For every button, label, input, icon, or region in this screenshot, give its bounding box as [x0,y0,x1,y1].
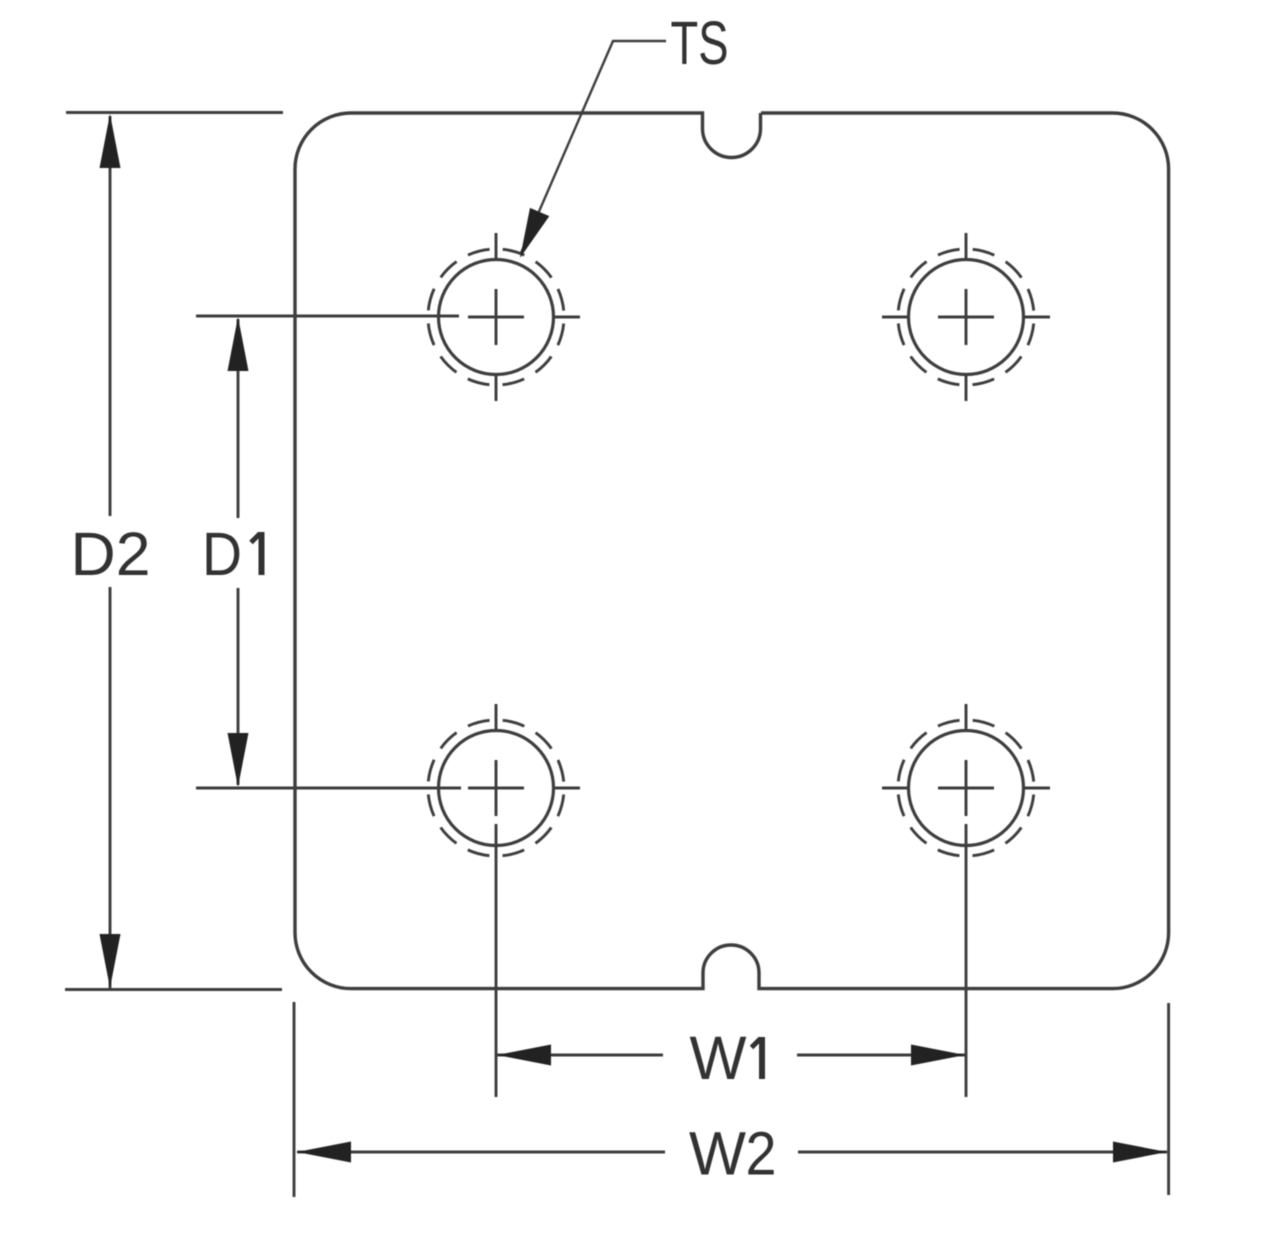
svg-text:D: D [202,520,242,588]
svg-text:TS: TS [671,9,729,77]
svg-text:W: W [690,1024,747,1092]
svg-text:W: W [689,1120,746,1188]
svg-text:D2: D2 [71,520,151,588]
svg-text:2: 2 [746,1120,777,1188]
